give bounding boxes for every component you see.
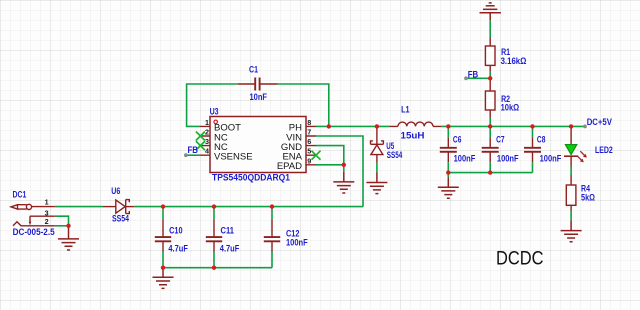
capacitor C12 100nF [264, 220, 280, 252]
power flag above R1 [480, 3, 501, 20]
resistor R4 5k [566, 175, 576, 211]
svg-text:5: 5 [307, 147, 311, 156]
junction dot DC1 ground [66, 224, 70, 228]
svg-text:C6: C6 [453, 134, 462, 145]
svg-text:DC1: DC1 [13, 190, 27, 201]
svg-text:C7: C7 [496, 134, 505, 145]
svg-text:6: 6 [307, 137, 311, 146]
svg-text:L1: L1 [401, 105, 410, 116]
junction dot EPAD/GND [342, 163, 346, 167]
wire DC1 pin3 [55, 216, 69, 226]
junction dot C1/PH [327, 124, 331, 128]
svg-text:9: 9 [307, 156, 311, 165]
svg-text:5kΩ: 5kΩ [581, 193, 595, 204]
svg-text:3.16kΩ: 3.16kΩ [501, 56, 527, 67]
wire C1 bootstrap loop left side [187, 84, 238, 126]
svg-text:100nF: 100nF [497, 154, 519, 165]
capacitor C7 100nF [482, 138, 499, 162]
wire VIN to input rail riser [316, 136, 363, 207]
junction dot C6 bottom [446, 170, 450, 174]
no-connect X pin 5 ENA [312, 151, 321, 160]
svg-text:DCDC: DCDC [496, 248, 544, 269]
dangling node dot FB net [464, 76, 468, 80]
wire FB net stub [466, 77, 490, 79]
diode U5 SS54 (freewheel) [371, 126, 384, 162]
wire C12 bottom [271, 252, 273, 268]
junction dot C11 bottom [212, 266, 216, 270]
wire input rail [134, 206, 363, 208]
svg-text:C11: C11 [221, 225, 235, 236]
wire C7 top [489, 126, 491, 138]
junction dot C6 top [446, 124, 450, 128]
inductor L1 15uH [390, 122, 441, 126]
resistor R2 10k [485, 78, 495, 117]
wire power bar to R1 [489, 20, 491, 37]
resistor R1 3.16k [485, 38, 495, 72]
svg-text:4.7uF: 4.7uF [168, 243, 188, 254]
svg-text:100nF: 100nF [454, 154, 476, 165]
svg-text:7: 7 [307, 128, 311, 137]
wire C7 bottom [489, 162, 491, 172]
svg-text:C8: C8 [537, 134, 546, 145]
IC U3 pin 1 indicator circle [214, 120, 218, 124]
ground at C10 [153, 268, 174, 289]
dangling node dot at VSENSE FB [184, 153, 188, 157]
net flag DC+5V [583, 125, 587, 129]
wire C11 top [213, 207, 215, 220]
capacitor C1 10nF [238, 78, 278, 91]
ground at C6 [438, 177, 459, 198]
svg-text:TPS5450QDDARQ1: TPS5450QDDARQ1 [212, 173, 291, 184]
wire C11 bottom [213, 252, 215, 268]
junction dot C7 bottom [488, 170, 492, 174]
svg-text:2: 2 [205, 128, 209, 137]
svg-text:100nF: 100nF [540, 154, 562, 165]
wire PH output rail [316, 125, 390, 127]
capacitor C10 4.7uF [155, 220, 171, 252]
svg-text:SS54: SS54 [387, 150, 403, 161]
junction dot LED top [569, 124, 573, 128]
wire GND pin to ground [316, 146, 344, 172]
wire FB stub at VSENSE [186, 154, 200, 156]
wire R4 bottom to ground [570, 211, 572, 221]
wire C10 bottom [162, 252, 164, 268]
IC U3 TPS5450QDDARQ1 body [210, 117, 306, 173]
svg-text:3: 3 [205, 137, 209, 146]
wire input cap bottom rail C10-C12 [163, 267, 272, 269]
svg-text:1: 1 [205, 118, 209, 127]
junction dot C8 top [530, 124, 534, 128]
wire DC1 pin1 to U6 [55, 206, 103, 208]
wire capacitor bottom rail C6-C8 [448, 172, 532, 174]
no-connect X pin 3 [196, 141, 205, 150]
svg-text:3: 3 [45, 208, 49, 217]
IC U3 left pin stubs 1-4 [200, 126, 210, 155]
IC U3 right pin stubs 8,7,6,5,9 [306, 126, 316, 164]
wire DC1 pin2 to ground junction [55, 225, 69, 227]
junction dot R2/C7 top [488, 124, 492, 128]
svg-text:C1: C1 [249, 64, 258, 75]
svg-text:100nF: 100nF [286, 238, 308, 249]
wire C12 top [271, 207, 273, 220]
junction dot U5 [375, 124, 379, 128]
junction dot FB node [488, 76, 492, 80]
svg-text:U3: U3 [210, 107, 219, 118]
svg-text:DC-005-2.5: DC-005-2.5 [13, 227, 56, 238]
wire U5 cathode to ground [376, 163, 378, 173]
capacitor C8 100nF [524, 138, 541, 162]
wire EPAD pin [316, 164, 344, 166]
svg-text:15uH: 15uH [401, 131, 425, 142]
connector DC1 switch arrowhead [29, 222, 32, 226]
ground at U5 [366, 173, 387, 194]
wire R2 bottom to output rail [489, 118, 491, 127]
svg-text:8: 8 [307, 118, 311, 127]
wire C10 top [162, 207, 164, 220]
svg-text:DC+5V: DC+5V [587, 117, 613, 128]
svg-text:2: 2 [45, 217, 49, 226]
svg-text:10kΩ: 10kΩ [501, 103, 520, 114]
LED2 [564, 126, 578, 166]
wire LED cathode to R4 [570, 167, 572, 176]
svg-text:LED2: LED2 [595, 145, 613, 156]
LED2 emission arrows [577, 151, 587, 162]
svg-text:VSENSE: VSENSE [214, 152, 253, 163]
junction dot C10 top [161, 204, 165, 208]
connector DC1 (DC-005-2.5 barrel jack) [11, 204, 55, 226]
svg-text:4.7uF: 4.7uF [220, 243, 240, 254]
wire R1 bottom to FB node [489, 71, 491, 78]
svg-text:1: 1 [45, 198, 49, 207]
wire C8 top [532, 126, 534, 138]
ground at IC GND/EPAD [333, 172, 354, 193]
junction dot C12 top [270, 204, 274, 208]
svg-text:C10: C10 [169, 225, 183, 236]
svg-text:4: 4 [205, 147, 209, 156]
diode U6 SS54 [103, 200, 134, 214]
capacitor C11 4.7uF [206, 220, 222, 252]
wire C1 bootstrap loop right side [278, 84, 329, 126]
junction dot C11 top [212, 204, 216, 208]
junction dot C10 bottom [161, 266, 165, 270]
svg-text:10nF: 10nF [250, 92, 268, 103]
capacitor C6 100nF [440, 138, 457, 162]
wire C6 top [447, 126, 449, 138]
svg-text:EPAD: EPAD [277, 161, 302, 172]
svg-text:FB: FB [468, 69, 479, 80]
svg-text:SS54: SS54 [112, 214, 129, 225]
wire C6 bottom [447, 162, 449, 177]
wire L1 to DC+5V flag rail [441, 125, 585, 127]
ground at DC1 [58, 226, 79, 250]
no-connect X pin 2 [196, 132, 205, 141]
wire C8 bottom [532, 162, 534, 172]
ground at R4 [561, 221, 582, 242]
svg-text:U6: U6 [111, 186, 120, 197]
